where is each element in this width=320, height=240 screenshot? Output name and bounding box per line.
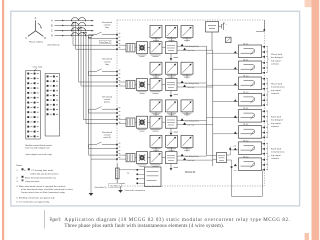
timer flag unit ch1 [162,42,177,54]
comparator ch3 [148,116,163,131]
svg-text:Inst. trip: Inst. trip [188,159,195,162]
svg-text:low delayed: low delayed [271,57,283,59]
svg-text:before (b) and (c) disconnect: before (b) and (c) disconnect [31,172,59,175]
svg-text:RL4-1: RL4-1 [243,124,248,126]
comparator ch2 [148,79,163,94]
timer flag unit ch4 [162,152,177,164]
svg-text:trip output: trip output [271,59,281,62]
setting element 1 ch2 [150,62,162,78]
svg-text:trip output: trip output [271,154,281,157]
auxiliary supply unit [206,22,219,51]
output contact group RL1-1 [207,44,268,58]
svg-text:5. Earthing connections are t: 5. Earthing connections are typical only… [16,196,55,199]
phase line C [51,30,94,33]
CT phase N [72,33,92,38]
svg-text:Low delayed trip: Low delayed trip [185,45,199,48]
svg-text:Figure 9:: Figure 9: [50,218,62,223]
setting element 2 ch2 [166,62,178,78]
svg-text:(with integral case earth stri: (with integral case earth strip) [26,153,53,156]
case terminal aux [256,20,265,32]
setting element 3 ch3 [181,100,193,116]
svg-text:trip output: trip output [271,122,281,125]
svg-text:Case earth connection: Case earth connection [124,189,146,192]
directional control label ch1 [102,21,113,29]
output contact group RL4-2 [234,157,268,171]
wire earth return bus [90,159,92,193]
setting element 2 ch1 [166,25,178,41]
output label group 4 [268,143,286,171]
output contact group RL2-2 [213,92,268,106]
trip bus 1 [206,46,208,155]
trip flag indicators ch4 [177,154,213,162]
svg-text:low delayed: low delayed [271,120,283,122]
svg-text:(See Note 4): (See Note 4) [48,44,60,47]
directional control label ch3 [102,95,113,103]
svg-text:Contact must close in 40ms (ma: Contact must close in 40ms (maximum) rel… [21,191,66,194]
output circuit +ve terminal [227,146,239,156]
setting element 3 ch2 [181,62,193,78]
output contact group RL4-1 [213,124,268,138]
svg-text:RL2-1: RL2-1 [243,60,248,62]
left accent bar [2,0,4,240]
case terminals ch4 [116,143,120,160]
svg-text:contacts: contacts [271,92,280,95]
phase line A [51,20,94,23]
svg-text:Directional: Directional [102,58,113,61]
notes block [16,164,73,203]
timer flag unit ch2 [162,79,177,91]
svg-text:trip output: trip output [271,89,281,92]
setting element 2 ch3 [166,100,178,116]
flag reset arrow ch3 [170,128,178,135]
svg-text:instantaneous: instantaneous [271,86,286,89]
svg-text:Phase fault: Phase fault [271,83,282,86]
svg-text:N: N [51,35,53,38]
svg-text:control: control [104,98,111,101]
wire CT B secondary to relay input [78,27,117,86]
timer flag unit ch3 [162,116,177,128]
output contact group RL1-2 [207,76,268,90]
svg-text:contacts: contacts [271,157,280,160]
svg-text:Inst. trip: Inst. trip [188,86,195,89]
output circuit -ve terminal loop [227,160,263,196]
svg-text:instantaneous: instantaneous [271,151,286,154]
phase line B [51,24,94,27]
svg-text:Low delayed trip: Low delayed trip [185,155,199,158]
svg-text:+ve: +ve [233,146,236,148]
svg-text:control: control [104,60,111,63]
svg-text:Case earth: Case earth [33,65,43,68]
svg-text:Long terminals: Long terminals [25,180,40,183]
directional flag contact loop ch3 [89,107,118,113]
wire CT C secondary to relay input [83,32,117,124]
directional flag contact loop ch2 [89,69,118,75]
input transformer ch3 [119,118,135,126]
case terminals ch2 [116,70,120,87]
case earth label [33,65,43,71]
setting element 1 ch4 [150,135,162,151]
svg-text:of the directional relays shou: of the directional relays should be conn… [21,188,74,191]
setting element 1 ch1 [150,25,162,41]
svg-text:Three phase plus earth fault w: Three phase plus earth fault with instan… [64,224,224,229]
setting element 3 ch1 [181,25,193,41]
svg-text:4. When directional control i: 4. When directional control is required … [16,185,66,188]
squarer unit ch1 [135,42,148,57]
comparator ch4 [148,152,163,167]
diagram frame [11,11,300,206]
svg-text:Inst. trip: Inst. trip [188,49,195,52]
case earth connection [118,186,146,193]
output label group 1 [268,46,284,72]
terminal strip left [26,71,41,140]
svg-text:from rear with integral case: from rear with integral case [26,147,51,150]
output label group 2 [268,78,286,106]
svg-text:RL1-2: RL1-2 [243,76,248,78]
svg-text:Directional: Directional [102,95,113,98]
trip flag indicators ch3 [177,118,213,126]
svg-text:control: control [104,24,111,27]
svg-text:6. CT connections are typical: 6. CT connections are typical only. [16,200,50,203]
svg-text:Directional: Directional [102,131,113,134]
svg-text:Notes:: Notes: [16,164,23,167]
squarer unit ch2 [135,79,148,94]
output contact group RL2-1 [213,60,268,74]
svg-text:control: control [104,133,111,136]
directional control label ch2 [102,58,113,66]
svg-text:contacts: contacts [271,63,280,66]
wire CT N secondary to relay input [88,37,117,159]
right accent bottom stub [305,233,309,240]
caption text [50,218,291,229]
directional flag contact loop ch1 [89,32,118,38]
right accent top block [305,0,312,7]
terminal strip caption [26,144,53,156]
note label see note 3 [109,183,122,187]
svg-text:Phase fault: Phase fault [271,53,282,56]
squarer unit ch3 [135,116,148,131]
flag reset arrow ch1 [170,54,178,61]
note label see note 2 [100,40,112,43]
setting element 1 ch3 [150,100,162,116]
svg-text:CT shorting links make: CT shorting links make [31,169,54,172]
terminal strip right [45,74,60,137]
phase line N [51,35,94,38]
input transformer ch1 [119,44,135,52]
svg-text:Short terminals break before (: Short terminals break before (c) [25,176,56,179]
svg-text:Low delayed trip: Low delayed trip [185,82,199,85]
CT phase A [72,18,86,23]
directional flag contact loop ch4 [89,142,118,148]
input transformer ch4 [119,153,135,161]
CT phase B [72,22,86,27]
output contact group RL3-2 [234,141,268,155]
trip flag indicators ch2 [177,81,213,89]
svg-text:MCGG 82: MCGG 82 [185,172,196,174]
svg-text:RL4-2: RL4-2 [243,157,248,159]
ground symbol supply earth [89,193,94,196]
svg-text:See Note 3: See Note 3 [110,184,119,187]
output circuit unit [207,153,227,163]
svg-text:RL3-2: RL3-2 [243,141,248,143]
setting element 2 ch4 [166,135,178,151]
directional control label ch4 [102,131,113,139]
svg-text:RL1-1: RL1-1 [243,44,248,46]
svg-text:Inst. trip: Inst. trip [188,124,195,127]
svg-text:Module terminal block viewed: Module terminal block viewed [26,144,52,147]
svg-text:-ve: -ve [234,170,237,172]
CT phase C [72,28,87,33]
case terminals ch1 [116,33,120,50]
supply switch component [226,37,232,43]
svg-text:Phase rotation: Phase rotation [29,40,44,43]
trip flag indicators ch1 [177,44,213,52]
input transformer ch2 [119,80,135,88]
svg-text:contacts: contacts [271,125,280,128]
svg-text:Earth fault: Earth fault [271,116,281,119]
output label group 3 [268,111,284,139]
test terminal block [119,167,161,187]
setting element 3 ch4 [181,135,193,151]
relay case boundary (dashed) [117,20,265,186]
flag reset arrow ch2 [170,91,178,98]
svg-text:See Note 2: See Note 2 [100,41,109,44]
svg-text:C: C [51,30,53,33]
svg-text:Application diagram (10 MCGG 8: Application diagram (10 MCGG 82 03) stat… [64,218,290,223]
output contact group RL3-1 [207,108,268,122]
svg-text:Earth fault: Earth fault [271,148,281,151]
squarer unit ch4 [135,152,148,167]
svg-text:phase: phase [104,102,111,104]
svg-text:C: C [25,37,27,40]
case terminals ch3 [116,107,120,124]
flag reset arrow ch4 [170,164,178,171]
svg-text:Low delayed trip: Low delayed trip [185,120,199,123]
auxiliary supply terminals [219,23,228,32]
earthing link T1 [116,164,130,186]
wire CT A secondary to relay input [72,22,117,49]
svg-text:RL2-2: RL2-2 [243,92,248,94]
comparator ch1 [148,42,163,57]
svg-text:RL3-1: RL3-1 [243,108,248,110]
right accent bar [312,0,320,240]
caption rule [43,210,46,229]
phase rotation symbol [25,17,46,43]
svg-text:earth flt: earth flt [103,136,111,139]
trip bus 2 [212,50,214,166]
svg-text:Directional: Directional [102,21,113,24]
svg-text:(See Note 5): (See Note 5) [95,186,107,189]
